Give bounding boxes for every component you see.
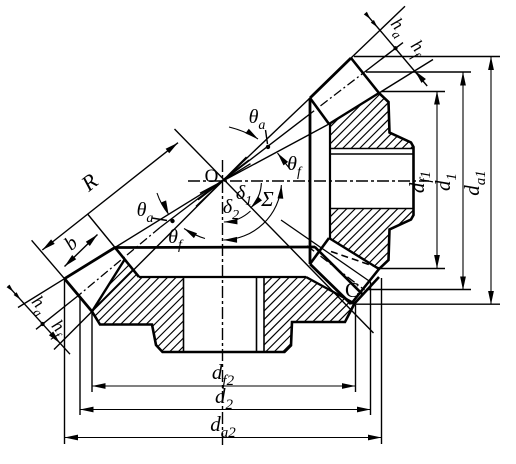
delta1 angle arc xyxy=(251,183,262,208)
R dimension line xyxy=(42,143,178,250)
gear2 right root edge parallel to gear1 tip xyxy=(315,247,363,295)
gear1 lower tooth tip edge xyxy=(310,264,351,304)
gear1 tip cone line (43.7 deg) with down-left extension xyxy=(196,98,310,206)
gear1 pitch line dash-dot through tooth xyxy=(307,72,365,116)
gear2 left tooth outer (back cone) face xyxy=(65,279,93,312)
gear1 bore bottom line xyxy=(330,208,414,210)
Sigma angle arc xyxy=(224,185,282,240)
dimension line d_a2 xyxy=(65,437,382,439)
dimension line d_a1 xyxy=(490,57,492,305)
dot on pitch2 line xyxy=(170,219,174,223)
theta_a arc left xyxy=(157,193,169,214)
front face extension line for b xyxy=(88,215,115,248)
svg-text:C: C xyxy=(345,278,359,302)
gear2 right tooth root edge xyxy=(306,277,355,304)
gear2 pitch dash-dot through tooth xyxy=(78,228,160,296)
small end ticks xyxy=(371,20,378,27)
gear2 tip line extension beyond T2 xyxy=(18,279,65,308)
gear2 left shoulder steps xyxy=(92,304,355,353)
gear1 lower tooth root edge xyxy=(329,238,379,269)
dimension line d_f2 xyxy=(92,385,356,387)
gear2 left tooth root edge xyxy=(92,259,125,311)
gear2 left front face chamfer xyxy=(115,248,139,278)
gear2 keyway line xyxy=(263,277,265,352)
b dimension line xyxy=(65,235,98,267)
theta_a left leader line xyxy=(152,218,167,221)
gear1 bore top line xyxy=(330,153,414,155)
gear2 bore right edge xyxy=(256,277,258,352)
svg-text:O: O xyxy=(205,166,219,187)
gear1 root cone line thin part near O xyxy=(200,124,329,193)
dot at pitch crossing xyxy=(393,46,397,50)
gear1 front face vertical xyxy=(309,98,312,264)
theta_a arc right xyxy=(229,127,258,139)
theta_a right leader line xyxy=(266,130,268,144)
delta2 angle arc xyxy=(224,211,251,222)
gear2 right pitch line thin xyxy=(281,220,371,282)
gear1 lower chamfer to rim xyxy=(310,238,329,264)
dimension line d_2 xyxy=(80,409,371,411)
gear2 root line extension beyond R2o for h_f dim xyxy=(54,312,92,350)
h dimension slanted line top right xyxy=(366,13,428,86)
gear1 root line extension beyond D xyxy=(379,60,433,94)
theta_f arc right xyxy=(278,153,291,170)
gear2 left tooth tip edge xyxy=(65,248,116,279)
gear2 right tooth tip edge hidden dashed xyxy=(331,252,379,269)
gear1 upper tooth tip edge xyxy=(310,58,351,98)
gear2 root cone line 45deg down-left (O to root corner) xyxy=(92,157,247,312)
theta_f arc left xyxy=(184,229,205,239)
outer face extension line upper-left xyxy=(32,240,65,278)
gear1 pitch line extension to h_f dim xyxy=(365,43,403,72)
gear1 upper chamfer to rim xyxy=(310,98,329,124)
gear1 upper tooth root edge xyxy=(329,93,379,124)
gear1 tip line extension beyond A to top right xyxy=(351,6,405,58)
gear2 pitch cone line thin part near O xyxy=(160,160,249,228)
arrow at root crossing xyxy=(415,71,426,83)
svg-text:Σ: Σ xyxy=(260,187,274,211)
h dimension slanted line left xyxy=(8,286,70,354)
gear 1 axis centerline xyxy=(188,180,429,182)
gear2 bore left edge xyxy=(183,277,185,352)
gear 2 axis centerline xyxy=(222,160,224,446)
gear2 right tooth outer face xyxy=(355,277,380,304)
dimension line d_1 xyxy=(462,72,464,290)
gear2 rim band bottom line xyxy=(139,276,306,278)
extension lines bottom xyxy=(91,313,93,392)
gear1 rim inner vertical xyxy=(329,124,331,238)
gear1 pitch cone line thin part near O xyxy=(198,116,307,200)
contact pitch line 45deg from upper-left extension through O to C region xyxy=(175,129,374,333)
gear1 keyway top line xyxy=(330,148,414,150)
gear2 tip cone line (31.7deg) with up-right extension xyxy=(115,164,251,248)
dimension line d_f1 xyxy=(436,91,438,269)
gear2 top face xyxy=(115,246,315,249)
gear2 pitch line extension beyond outer face xyxy=(36,296,78,330)
extension lines right side xyxy=(381,91,445,93)
dot on pitch1 line xyxy=(266,145,270,149)
gear1 lower pitch dash-dot xyxy=(307,246,365,290)
gear1 outer face upper and shoulder steps xyxy=(351,58,414,304)
